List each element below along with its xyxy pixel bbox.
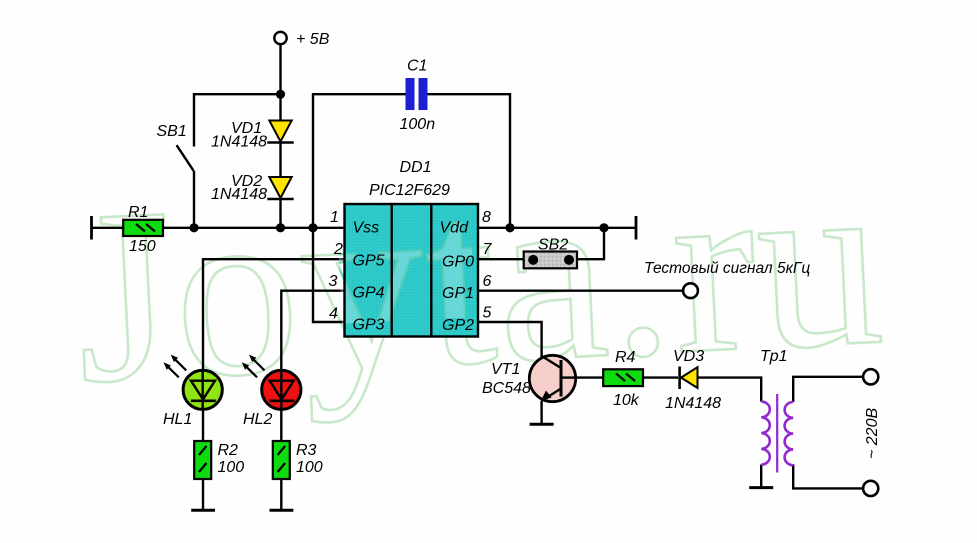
svg-text:~ 220В: ~ 220В [864, 408, 881, 459]
svg-text:3: 3 [329, 273, 338, 290]
resistor R4 [603, 369, 643, 386]
LED HL2 [242, 355, 301, 410]
svg-text:VT1: VT1 [491, 361, 520, 378]
wire GP5 branch [203, 259, 345, 370]
transformer Tp1 [761, 394, 793, 473]
wire main rail [92, 227, 345, 229]
svg-text:R4: R4 [615, 349, 636, 366]
switch SB1 lever [177, 145, 194, 171]
wire C1 right branch [428, 94, 511, 228]
wire Tp1 primary bottom [760, 465, 762, 487]
watermark Joyta.ru [69, 121, 890, 435]
svg-text:2: 2 [333, 241, 343, 258]
wire GP1 test signal [478, 290, 684, 292]
svg-text:GP2: GP2 [442, 317, 474, 334]
svg-text:R2: R2 [218, 442, 239, 459]
wire GP3 branch [313, 228, 345, 322]
wire pin8 rail [478, 227, 637, 229]
terminal 220V bottom [863, 481, 878, 496]
svg-text:8: 8 [482, 209, 491, 226]
svg-text:100n: 100n [400, 116, 436, 133]
wire GP2 to VT1 [478, 322, 542, 357]
wire VD2-rail [279, 200, 281, 228]
ground HL1 [191, 509, 215, 512]
wire GP4 branch [281, 291, 344, 371]
resistor R2 [194, 441, 211, 479]
wire R4-VD3 [643, 376, 678, 378]
ground Tp1 [749, 486, 773, 489]
diode VD2 [267, 177, 293, 199]
svg-text:R1: R1 [128, 204, 148, 221]
wire VT1 emitter down [540, 401, 542, 423]
wire Tp1 secondary bottom [793, 465, 863, 489]
svg-text:5: 5 [483, 305, 492, 322]
wire C1 left branch [313, 94, 406, 228]
op-amp DD1 body [69, 121, 890, 435]
svg-text:PIC12F629: PIC12F629 [369, 182, 450, 199]
terminal bar left [90, 216, 93, 240]
svg-text:1N4148: 1N4148 [211, 186, 267, 203]
svg-text:VD3: VD3 [673, 348, 704, 365]
svg-text:C1: C1 [407, 58, 427, 75]
terminal +5V [274, 32, 286, 44]
wire +5V drop [279, 45, 281, 121]
svg-text:6: 6 [483, 273, 492, 290]
switch SB2 [524, 252, 577, 269]
svg-text:HL1: HL1 [163, 411, 192, 428]
diode VD3 [680, 367, 698, 390]
transistor VT1 [529, 355, 576, 401]
terminal test signal [683, 283, 698, 298]
svg-text:1N4148: 1N4148 [211, 134, 267, 151]
ground HL2 [270, 509, 294, 512]
pin numbers [329, 209, 493, 323]
svg-text:10k: 10k [613, 392, 640, 409]
node junction dots [189, 90, 608, 233]
svg-text:+ 5В: + 5В [296, 31, 330, 48]
svg-text:1: 1 [330, 209, 339, 226]
wire VT1-R4 [577, 376, 604, 378]
svg-text:DD1: DD1 [400, 159, 432, 176]
svg-text:BC548: BC548 [482, 380, 531, 397]
svg-text:HL2: HL2 [243, 411, 272, 428]
svg-text:4: 4 [329, 306, 338, 323]
wire VD3-Tp1 [698, 378, 762, 402]
svg-text:SB1: SB1 [157, 123, 187, 140]
terminal 220V top [863, 369, 878, 384]
IC pin labels [353, 220, 475, 335]
wire R3-ground [280, 479, 282, 509]
diode VD1 [267, 121, 293, 143]
wire HL1-R2 [202, 409, 204, 441]
svg-text:100: 100 [296, 459, 323, 476]
capacitor C1 [406, 78, 428, 110]
LED HL1 [164, 355, 223, 410]
wire Tp1 secondary top [793, 377, 863, 402]
wire HL2-R3 [280, 409, 282, 441]
wire SB1 bottom [193, 171, 195, 228]
ground VT1 [530, 423, 554, 426]
terminal bar right [635, 216, 638, 240]
svg-text:Tp1: Tp1 [760, 348, 788, 365]
svg-text:100: 100 [218, 459, 245, 476]
svg-text:GP3: GP3 [353, 317, 385, 334]
wire VD1-VD2 [279, 143, 281, 177]
resistor R1 [123, 220, 163, 236]
svg-text:Vss: Vss [353, 220, 380, 237]
svg-text:7: 7 [483, 241, 493, 258]
svg-text:GP1: GP1 [442, 285, 474, 302]
resistor R3 [273, 441, 290, 479]
svg-text:GP4: GP4 [353, 285, 385, 302]
svg-text:1N4148: 1N4148 [665, 395, 721, 412]
svg-text:Vdd: Vdd [440, 220, 470, 237]
wire SB2 up [577, 228, 604, 259]
svg-text:Тестовый сигнал 5кГц: Тестовый сигнал 5кГц [644, 260, 810, 277]
wire R2-ground [202, 479, 204, 509]
wire SB1 top branch [194, 94, 281, 146]
wire GP0-SB2 [478, 258, 524, 260]
svg-text:R3: R3 [296, 442, 317, 459]
svg-text:GP0: GP0 [442, 254, 474, 271]
svg-text:SB2: SB2 [538, 236, 568, 253]
svg-text:150: 150 [129, 238, 156, 255]
svg-text:GP5: GP5 [353, 253, 385, 270]
